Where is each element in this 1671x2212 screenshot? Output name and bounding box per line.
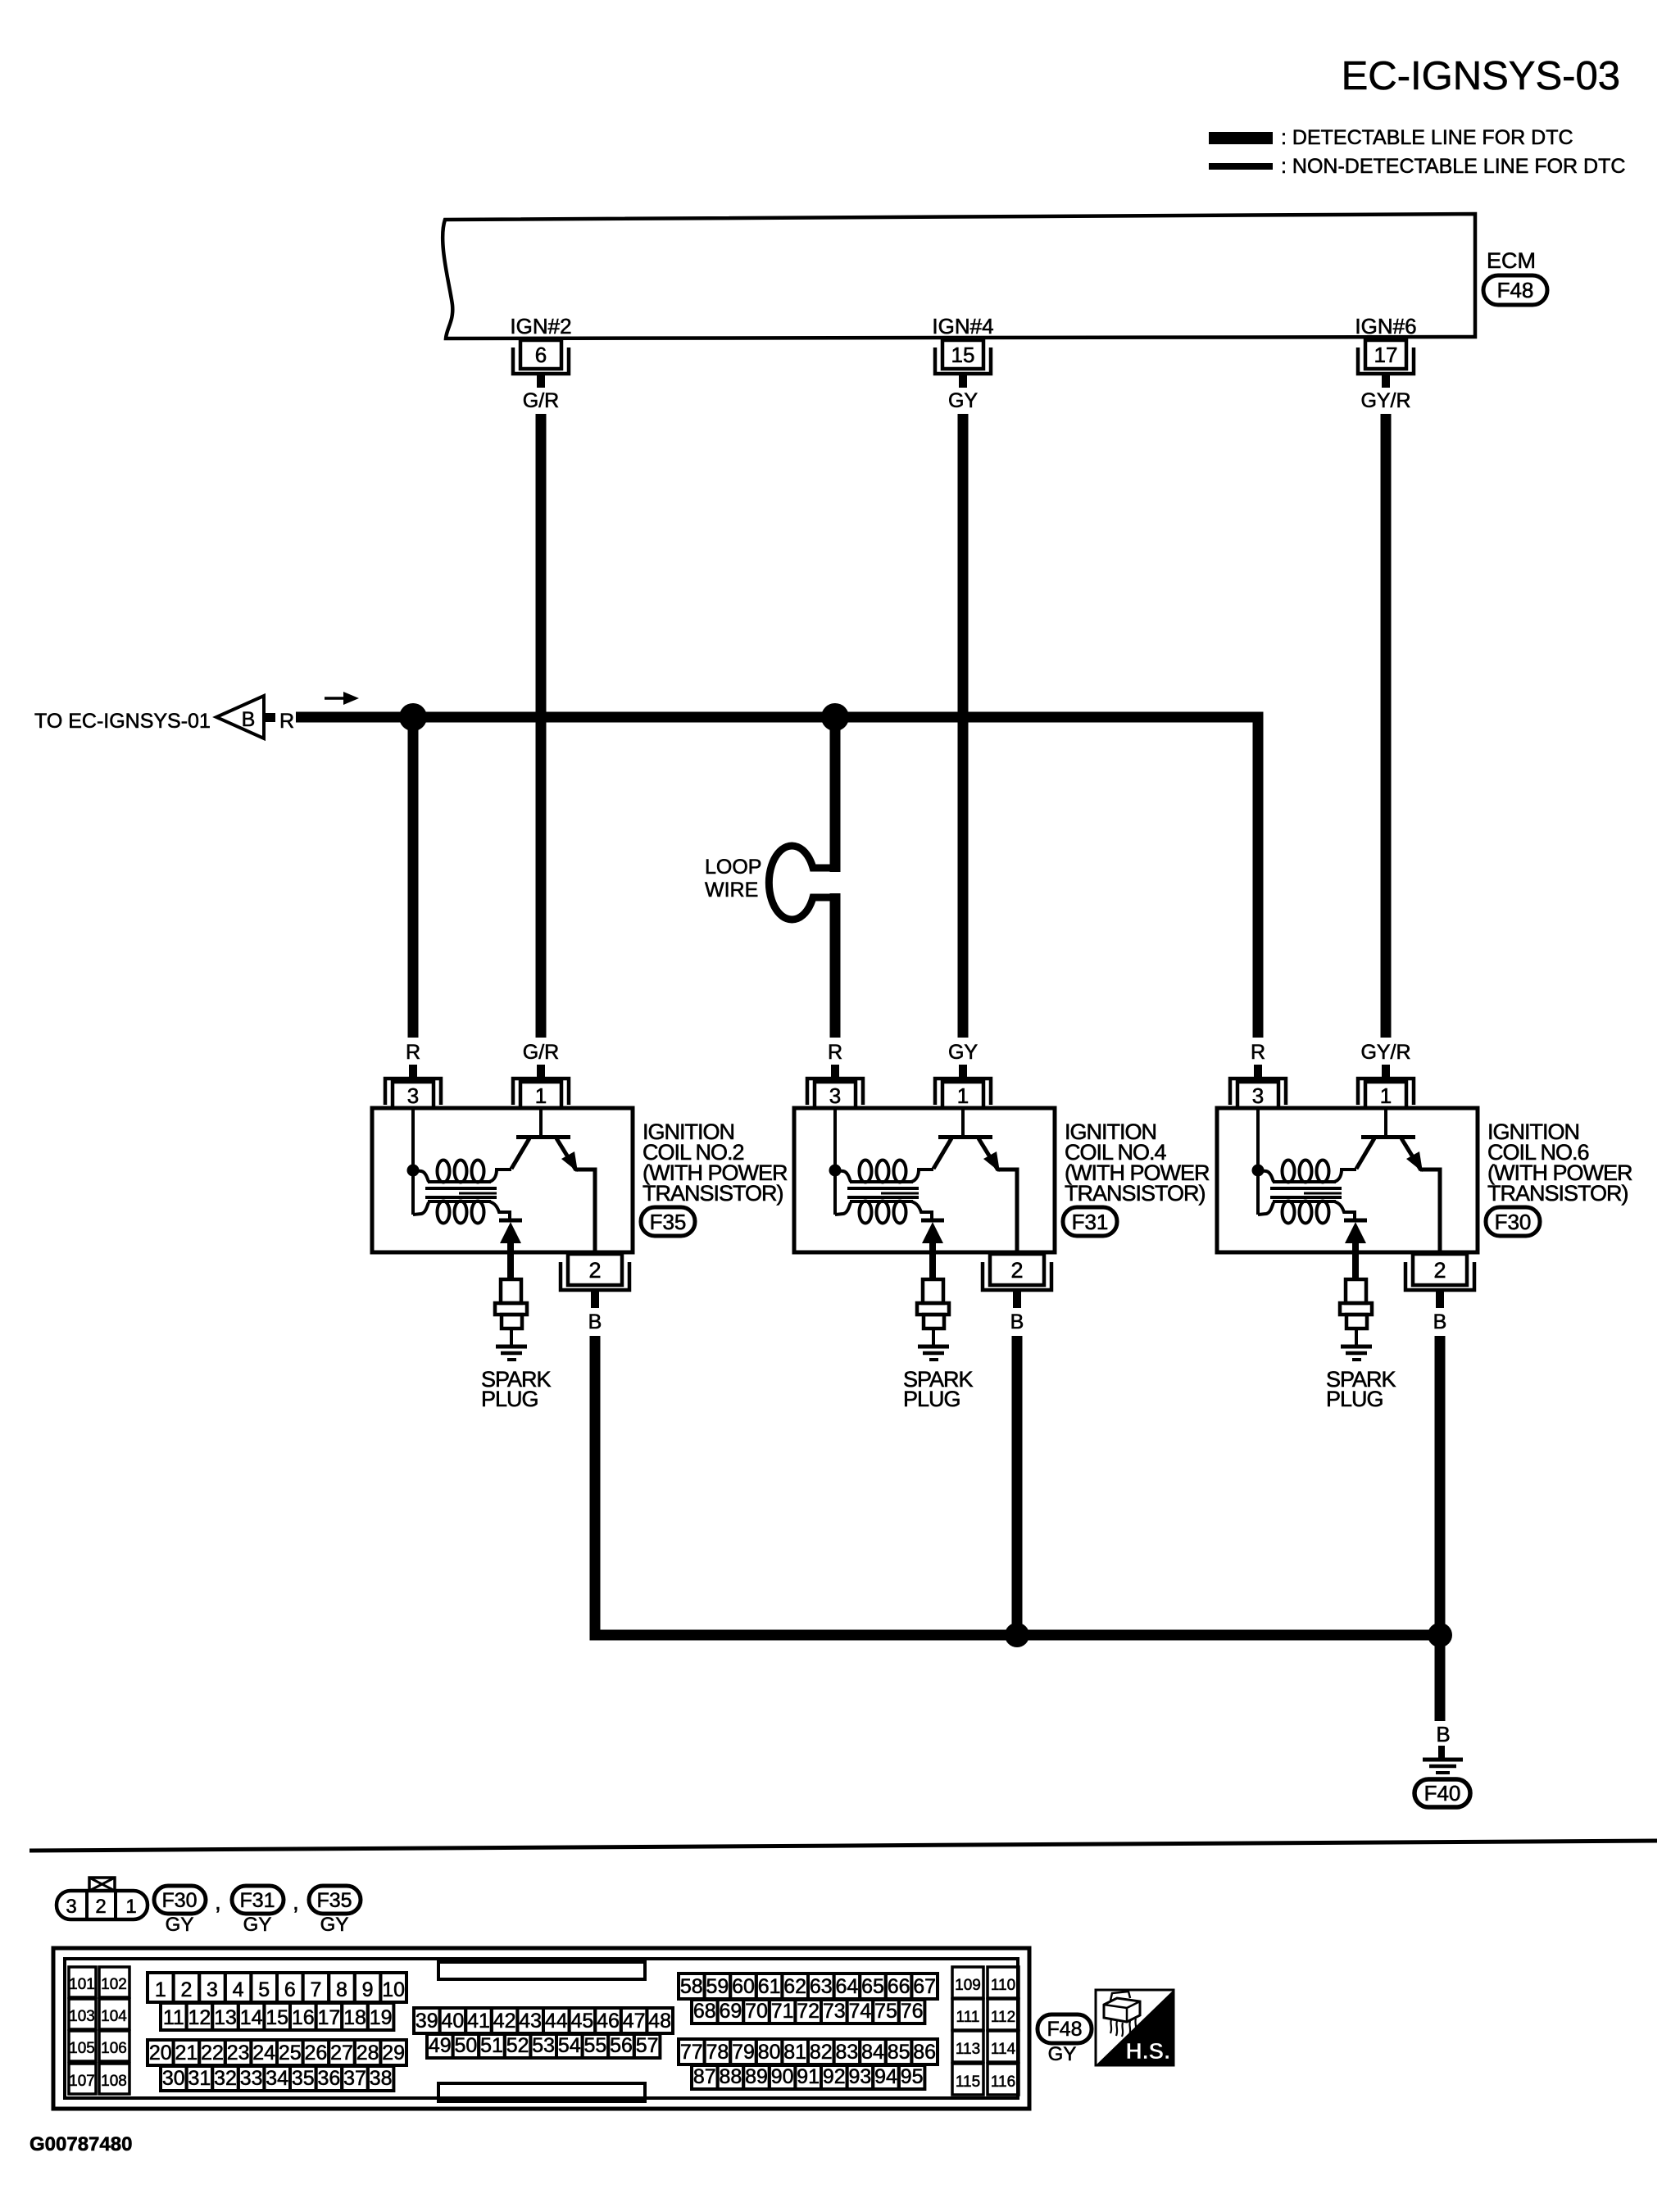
power transistor Q4 collector <box>979 1138 998 1170</box>
power transistor Q2 base bar <box>516 1135 570 1139</box>
svg-text:87: 87 <box>693 2065 716 2088</box>
wire B from coil no.2 pin 2 to ground bus <box>595 1336 1440 1635</box>
svg-text:F31: F31 <box>239 1889 275 1912</box>
coil NO.4 pin 2 connector bracket <box>983 1262 1051 1290</box>
power transistor Q2 collector <box>556 1138 576 1170</box>
power transistor Q6 collector <box>1401 1138 1421 1170</box>
svg-text:78: 78 <box>706 2041 729 2064</box>
ignition coil NO.2 (F35) component box <box>372 1108 633 1252</box>
coil NO.6 internal wire from pin 3 <box>1256 1108 1260 1215</box>
svg-text:91: 91 <box>797 2065 820 2088</box>
flow direction arrow <box>325 697 344 700</box>
spark plug P4 insulator <box>923 1279 943 1303</box>
svg-text:B: B <box>1010 1310 1024 1333</box>
svg-text:,: , <box>215 1889 221 1914</box>
svg-text:95: 95 <box>901 2065 924 2088</box>
pin row 30-38 <box>161 2066 187 2091</box>
svg-text:1: 1 <box>957 1083 969 1108</box>
svg-text:44: 44 <box>545 2010 568 2033</box>
svg-text:48: 48 <box>648 2010 671 2033</box>
svg-text:B: B <box>588 1310 602 1333</box>
svg-text:4: 4 <box>233 1978 244 2001</box>
svg-text:3: 3 <box>66 1896 76 1918</box>
svg-text:2: 2 <box>180 1978 192 2001</box>
coil NO.6 connector F30 oval <box>1486 1207 1540 1236</box>
svg-text:22: 22 <box>201 2042 224 2064</box>
svg-text:17: 17 <box>317 2006 340 2029</box>
svg-text:TRANSISTOR): TRANSISTOR) <box>643 1181 783 1206</box>
coil NO.6 pin 1 stub <box>1382 1065 1390 1079</box>
loop wire <box>769 846 835 920</box>
svg-text:24: 24 <box>252 2042 275 2064</box>
svg-text:111: 111 <box>956 2009 980 2026</box>
keyway slot top <box>438 1962 645 1979</box>
coil NO.4 pin 3 stub <box>831 1065 839 1079</box>
coil NO.2 pin 1 terminal box <box>520 1082 561 1108</box>
svg-text:101: 101 <box>69 1976 95 1993</box>
svg-text:GY: GY <box>1048 2043 1077 2065</box>
svg-text:23: 23 <box>227 2042 250 2064</box>
svg-text:85: 85 <box>888 2041 910 2064</box>
junction node A on R bus <box>399 703 427 731</box>
svg-text:73: 73 <box>823 2000 846 2023</box>
svg-text:21: 21 <box>175 2042 198 2064</box>
svg-text:90: 90 <box>771 2065 794 2088</box>
svg-text:109: 109 <box>955 1977 981 1994</box>
svg-text:33: 33 <box>240 2067 263 2090</box>
svg-text:72: 72 <box>797 2000 820 2023</box>
junction node C on ground bus <box>1005 1623 1029 1647</box>
connector F35 oval <box>309 1886 361 1914</box>
ECM pin 17 connector bracket <box>1358 347 1414 374</box>
svg-text:TO EC-IGNSYS-01: TO EC-IGNSYS-01 <box>34 710 211 733</box>
svg-text:B: B <box>1436 1722 1450 1746</box>
pin row 11-19 <box>161 2003 187 2030</box>
svg-text:F31: F31 <box>1072 1210 1109 1234</box>
svg-text:75: 75 <box>874 2000 897 2023</box>
ECM pin 15 connector bracket <box>935 347 991 374</box>
coil NO.6 pin 1 terminal box <box>1365 1082 1406 1108</box>
coil NO.2 pin 3 stub <box>409 1065 417 1079</box>
ignition coil NO.6 (F30) component box <box>1217 1108 1478 1252</box>
svg-text:40: 40 <box>441 2010 464 2033</box>
coil NO.6 transformer secondary winding <box>1258 1202 1274 1215</box>
svg-text:H.S.: H.S. <box>1126 2038 1170 2064</box>
svg-text:F48: F48 <box>1497 278 1534 302</box>
svg-text:5: 5 <box>258 1978 270 2001</box>
svg-text:PLUG: PLUG <box>481 1387 538 1411</box>
coil NO.2 connector F35 oval <box>641 1207 695 1236</box>
svg-text:TRANSISTOR): TRANSISTOR) <box>1487 1181 1628 1206</box>
spark plug P2 insulator <box>501 1279 521 1303</box>
ECM U1 box <box>443 214 1475 338</box>
coil NO.6 pin 1 connector bracket <box>1358 1079 1414 1105</box>
svg-text:12: 12 <box>188 2006 211 2029</box>
svg-text:F30: F30 <box>161 1889 197 1912</box>
coil NO.2 pin 3 connector bracket <box>385 1079 441 1105</box>
svg-text:13: 13 <box>214 2006 237 2029</box>
pin row 49-57 <box>427 2034 453 2058</box>
svg-text:93: 93 <box>848 2065 871 2088</box>
svg-text:38: 38 <box>370 2067 393 2090</box>
svg-text:84: 84 <box>861 2041 884 2064</box>
svg-text:ECM: ECM <box>1487 248 1536 273</box>
coil NO.4 connector F31 oval <box>1063 1207 1117 1236</box>
svg-text:G00787480: G00787480 <box>30 2133 132 2155</box>
pin grid 101-108 <box>69 1967 96 1997</box>
svg-text:26: 26 <box>304 2042 327 2064</box>
svg-text:37: 37 <box>343 2067 366 2090</box>
svg-text:68: 68 <box>693 2000 716 2023</box>
svg-text:106: 106 <box>101 2040 127 2057</box>
svg-text:55: 55 <box>583 2034 606 2057</box>
svg-text:9: 9 <box>362 1978 374 2001</box>
svg-text:45: 45 <box>570 2010 593 2033</box>
spark plug P6 hex <box>1340 1303 1372 1315</box>
coil NO.6 pin 2 connector bracket <box>1405 1262 1474 1290</box>
coil NO.4 pin 2 terminal box <box>990 1254 1044 1285</box>
svg-text:41: 41 <box>467 2010 490 2033</box>
svg-text:57: 57 <box>636 2034 659 2057</box>
svg-text:1: 1 <box>535 1083 547 1108</box>
pin row 1-10 <box>148 1973 174 2002</box>
coil NO.2 pin 3 terminal box <box>393 1082 434 1108</box>
connector F48 oval at pinout <box>1038 2014 1092 2043</box>
svg-text:1: 1 <box>125 1896 136 1918</box>
svg-text:53: 53 <box>532 2034 555 2057</box>
ECM pin 6 connector bracket <box>513 347 569 374</box>
pin row 39-48 <box>414 2008 440 2033</box>
diode D6 (spark gap) in coil NO.6 <box>1344 1219 1367 1223</box>
connector F30 oval <box>154 1886 206 1914</box>
svg-text:16: 16 <box>292 2006 315 2029</box>
svg-text:102: 102 <box>101 1976 127 1993</box>
H.S. logo connector icon <box>1104 1998 1140 2022</box>
svg-text:92: 92 <box>823 2065 846 2088</box>
junction node B on R bus <box>821 703 849 731</box>
svg-text:IGN#2: IGN#2 <box>510 314 571 338</box>
svg-text:LOOP: LOOP <box>705 856 761 879</box>
junction node D on ground bus <box>1428 1623 1452 1647</box>
svg-text:7: 7 <box>310 1978 321 2001</box>
svg-text:59: 59 <box>706 1975 729 1998</box>
wire R from loop wire to ignition coil no.4 pin 3 <box>830 893 841 1038</box>
svg-text:14: 14 <box>240 2006 263 2029</box>
svg-text:113: 113 <box>956 2041 980 2058</box>
svg-text:2: 2 <box>95 1896 106 1918</box>
svg-text:42: 42 <box>493 2010 516 2033</box>
svg-text:GY/R: GY/R <box>1360 1041 1410 1064</box>
ECM pin 17 stub <box>1382 374 1390 388</box>
svg-text:46: 46 <box>597 2010 620 2033</box>
svg-text:F40: F40 <box>1424 1781 1461 1805</box>
coil NO.4 pin 1 stub <box>959 1065 967 1079</box>
svg-text:WIRE: WIRE <box>705 879 758 902</box>
spark plug P2 electrode <box>510 1329 513 1346</box>
svg-text:8: 8 <box>336 1978 347 2001</box>
ECM pin 6 stub <box>537 374 545 388</box>
svg-text:115: 115 <box>956 2073 980 2091</box>
coil connector face 3-2-1 pill <box>57 1891 148 1919</box>
svg-text:2: 2 <box>1010 1258 1023 1283</box>
power transistor Q2 emitter <box>511 1138 529 1169</box>
svg-text:112: 112 <box>991 2009 1015 2026</box>
coil NO.6 transformer primary winding <box>1258 1170 1274 1182</box>
pin grid 109-116 <box>952 1967 983 1998</box>
svg-text:34: 34 <box>266 2067 288 2090</box>
svg-text:60: 60 <box>732 1975 755 1998</box>
legend detectable line sample bar <box>1209 132 1273 144</box>
svg-text:51: 51 <box>480 2034 503 2057</box>
svg-text:17: 17 <box>1374 343 1398 367</box>
coil NO.6 pin 3 stub <box>1254 1065 1262 1079</box>
svg-text:11: 11 <box>163 2006 184 2029</box>
svg-text:6: 6 <box>284 1978 296 2001</box>
ground stub <box>1438 1746 1445 1758</box>
spark plug P2 ground electrode <box>496 1345 527 1349</box>
svg-text:108: 108 <box>101 2073 127 2090</box>
svg-text:18: 18 <box>343 2006 366 2029</box>
spark plug P6 electrode <box>1355 1329 1358 1346</box>
svg-text:PLUG: PLUG <box>903 1387 960 1411</box>
svg-text:30: 30 <box>162 2067 185 2090</box>
ground symbol F40 <box>1423 1758 1463 1762</box>
svg-text:F35: F35 <box>650 1210 687 1234</box>
svg-text:114: 114 <box>991 2041 1016 2058</box>
svg-text:80: 80 <box>758 2041 781 2064</box>
svg-text:79: 79 <box>732 2041 755 2064</box>
coil NO.2 pin 1 stub <box>537 1065 545 1079</box>
svg-text:3: 3 <box>1252 1083 1264 1108</box>
ground connector F40 oval <box>1414 1779 1470 1807</box>
svg-text:28: 28 <box>356 2042 379 2064</box>
svg-text:1: 1 <box>155 1978 166 2001</box>
svg-text:64: 64 <box>835 1975 858 1998</box>
svg-text:G/R: G/R <box>523 1041 559 1064</box>
svg-text:82: 82 <box>810 2041 833 2064</box>
coil NO.2 transformer secondary winding <box>413 1202 429 1215</box>
off-page connector triangle B <box>216 696 264 738</box>
svg-text:32: 32 <box>214 2067 237 2090</box>
svg-text:R: R <box>406 1041 420 1064</box>
svg-text:77: 77 <box>680 2041 703 2064</box>
svg-text:104: 104 <box>101 2008 127 2025</box>
svg-text:,: , <box>293 1889 299 1914</box>
power transistor Q2 base wire from pin 1 <box>539 1108 543 1136</box>
ECM pin 15 terminal box <box>942 340 983 369</box>
svg-text:15: 15 <box>951 343 975 367</box>
svg-text:2: 2 <box>588 1258 601 1283</box>
coil NO.4 pin 2 stub <box>1013 1292 1021 1308</box>
svg-text:IGN#6: IGN#6 <box>1355 314 1416 338</box>
svg-text:43: 43 <box>519 2010 542 2033</box>
svg-text:10: 10 <box>382 1978 405 2001</box>
spark plug P2 shell <box>502 1315 522 1329</box>
svg-text:65: 65 <box>861 1975 884 1998</box>
diode D4 (spark gap) in coil NO.4 <box>921 1219 944 1223</box>
power transistor Q4 base bar <box>938 1135 992 1139</box>
spark plug P6 ground electrode <box>1341 1345 1372 1349</box>
svg-text:F35: F35 <box>316 1889 352 1912</box>
svg-text:103: 103 <box>69 2008 95 2025</box>
svg-text:116: 116 <box>991 2073 1015 2091</box>
svg-text:88: 88 <box>719 2065 742 2088</box>
svg-text:62: 62 <box>783 1975 806 1998</box>
ECM connector F48 pinout inner box <box>65 1959 1018 2098</box>
svg-text:3: 3 <box>407 1083 419 1108</box>
svg-text:: DETECTABLE LINE FOR DTC: : DETECTABLE LINE FOR DTC <box>1281 126 1573 149</box>
pin row 68-76 <box>692 2000 718 2024</box>
svg-text:IGN#4: IGN#4 <box>932 314 993 338</box>
coil NO.4 pin 1 terminal box <box>942 1082 983 1108</box>
svg-text:2: 2 <box>1433 1258 1446 1283</box>
svg-text:66: 66 <box>888 1975 910 1998</box>
power transistor Q4 base wire from pin 1 <box>961 1108 965 1136</box>
svg-text:47: 47 <box>623 2010 646 2033</box>
svg-text:39: 39 <box>415 2010 438 2033</box>
ECM connector F48 oval <box>1483 275 1547 305</box>
coil NO.2 high tension wire to spark plug <box>507 1241 514 1280</box>
svg-text:F48: F48 <box>1047 2018 1082 2041</box>
svg-text:81: 81 <box>783 2041 806 2064</box>
ECM pin 6 terminal box <box>520 340 561 369</box>
svg-text:110: 110 <box>991 1977 1015 1994</box>
svg-text:R: R <box>1251 1041 1265 1064</box>
wire R bus from off-page connector to coil no.6 pin 3 <box>296 717 1258 1038</box>
pin row 20-29 <box>148 2040 174 2065</box>
svg-text:31: 31 <box>188 2067 211 2090</box>
wire GY from ECM pin 15 down to ignition coil <box>958 414 969 1038</box>
coil NO.6 pin 3 connector bracket <box>1230 1079 1286 1105</box>
svg-text:15: 15 <box>266 2006 288 2029</box>
svg-text:61: 61 <box>758 1975 781 1998</box>
svg-text:70: 70 <box>745 2000 768 2023</box>
svg-text:B: B <box>1433 1310 1447 1333</box>
svg-text:GY: GY <box>948 1041 978 1064</box>
svg-text:74: 74 <box>848 2000 871 2023</box>
svg-text:36: 36 <box>317 2067 340 2090</box>
spark plug P4 ground electrode <box>918 1345 949 1349</box>
H.S. harness side view logo <box>1096 1990 1174 2065</box>
svg-text:86: 86 <box>913 2041 936 2064</box>
coil NO.2 internal junction node <box>407 1165 420 1177</box>
svg-text:50: 50 <box>454 2034 477 2057</box>
svg-text:49: 49 <box>429 2034 452 2057</box>
wire B from coil no.6 pin 2 to ground <box>1435 1336 1446 1721</box>
separator line <box>30 1841 1657 1851</box>
svg-text:: NON-DETECTABLE LINE FOR DTC: : NON-DETECTABLE LINE FOR DTC <box>1281 155 1625 178</box>
svg-text:27: 27 <box>330 2042 353 2064</box>
keyway slot bottom <box>438 2083 645 2101</box>
coil connector keyway box with X <box>89 1878 115 1891</box>
svg-text:94: 94 <box>874 2065 897 2088</box>
spark plug P6 insulator <box>1346 1279 1366 1303</box>
svg-text:67: 67 <box>913 1975 936 1998</box>
svg-text:G/R: G/R <box>523 389 559 412</box>
coil NO.6 internal junction node <box>1252 1165 1265 1177</box>
spark plug P4 shell <box>924 1315 944 1329</box>
coil NO.4 pin 1 connector bracket <box>935 1079 991 1105</box>
wire R from node A to ignition coil no.2 pin 3 <box>408 717 419 1038</box>
svg-text:6: 6 <box>535 343 547 367</box>
coil NO.6 pin 3 terminal box <box>1237 1082 1278 1108</box>
power transistor Q6 base bar <box>1361 1135 1415 1139</box>
coil NO.4 collector wire to pin 2 <box>997 1170 1017 1254</box>
ECM connector F48 pinout outer box <box>53 1948 1029 2109</box>
svg-text:29: 29 <box>382 2042 405 2064</box>
coil NO.4 high tension wire to spark plug <box>929 1241 936 1280</box>
svg-text:GY: GY <box>166 1914 194 1936</box>
wire B from coil no.4 pin 2 to ground bus <box>1012 1336 1023 1635</box>
pin row 87-95 <box>692 2065 718 2089</box>
coil NO.4 transformer core <box>847 1187 919 1190</box>
svg-text:3: 3 <box>829 1083 841 1108</box>
svg-text:GY: GY <box>320 1914 349 1936</box>
pin row 77-86 <box>679 2039 705 2064</box>
coil NO.4 internal wire from pin 3 <box>833 1108 837 1215</box>
svg-text:25: 25 <box>279 2042 302 2064</box>
coil NO.2 internal wire from pin 3 <box>411 1108 415 1215</box>
ignition coil NO.4 (F31) component box <box>794 1108 1055 1252</box>
power transistor Q6 emitter <box>1356 1138 1374 1169</box>
svg-text:63: 63 <box>810 1975 833 1998</box>
svg-text:19: 19 <box>370 2006 393 2029</box>
svg-text:1: 1 <box>1380 1083 1392 1108</box>
coil NO.4 pin 3 terminal box <box>815 1082 856 1108</box>
pin row 58-67 <box>679 1974 705 1999</box>
svg-text:69: 69 <box>719 2000 742 2023</box>
svg-text:3: 3 <box>207 1978 218 2001</box>
svg-text:107: 107 <box>69 2073 95 2090</box>
svg-text:EC-IGNSYS-03: EC-IGNSYS-03 <box>1342 54 1620 98</box>
svg-text:35: 35 <box>292 2067 315 2090</box>
coil NO.4 transformer primary winding <box>835 1170 851 1182</box>
coil NO.2 transformer primary winding <box>413 1170 429 1182</box>
ECM pin 15 stub <box>959 374 967 388</box>
coil NO.2 pin 2 terminal box <box>568 1254 622 1285</box>
svg-text:52: 52 <box>506 2034 529 2057</box>
diode D2 (spark gap) in coil NO.2 <box>499 1219 522 1223</box>
coil NO.2 pin 1 connector bracket <box>513 1079 569 1105</box>
spark plug P6 shell <box>1346 1315 1367 1329</box>
svg-text:58: 58 <box>680 1975 703 1998</box>
svg-text:PLUG: PLUG <box>1326 1387 1383 1411</box>
svg-text:F30: F30 <box>1495 1210 1532 1234</box>
wire G/R from ECM pin 6 down to ignition coil <box>536 414 547 1038</box>
svg-text:83: 83 <box>835 2041 858 2064</box>
svg-text:20: 20 <box>149 2042 172 2064</box>
coil NO.4 internal junction node <box>829 1165 842 1177</box>
svg-text:R: R <box>828 1041 842 1064</box>
svg-text:56: 56 <box>610 2034 633 2057</box>
svg-text:71: 71 <box>771 2000 794 2023</box>
svg-text:89: 89 <box>745 2065 768 2088</box>
coil NO.2 collector wire to pin 2 <box>575 1170 595 1254</box>
svg-text:GY: GY <box>948 389 978 412</box>
ECM pin 17 terminal box <box>1365 340 1406 369</box>
coil NO.2 transformer core <box>425 1187 497 1190</box>
svg-text:54: 54 <box>558 2034 581 2057</box>
tick after triangle <box>265 713 275 722</box>
coil NO.6 collector wire to pin 2 <box>1420 1170 1440 1254</box>
wire R from node B to loop wire <box>830 723 841 872</box>
coil NO.4 pin 3 connector bracket <box>807 1079 863 1105</box>
svg-text:105: 105 <box>69 2040 95 2057</box>
svg-text:76: 76 <box>901 2000 924 2023</box>
connector F31 oval <box>232 1886 284 1914</box>
coil NO.6 pin 2 stub <box>1436 1292 1444 1308</box>
svg-text:R: R <box>279 710 294 733</box>
